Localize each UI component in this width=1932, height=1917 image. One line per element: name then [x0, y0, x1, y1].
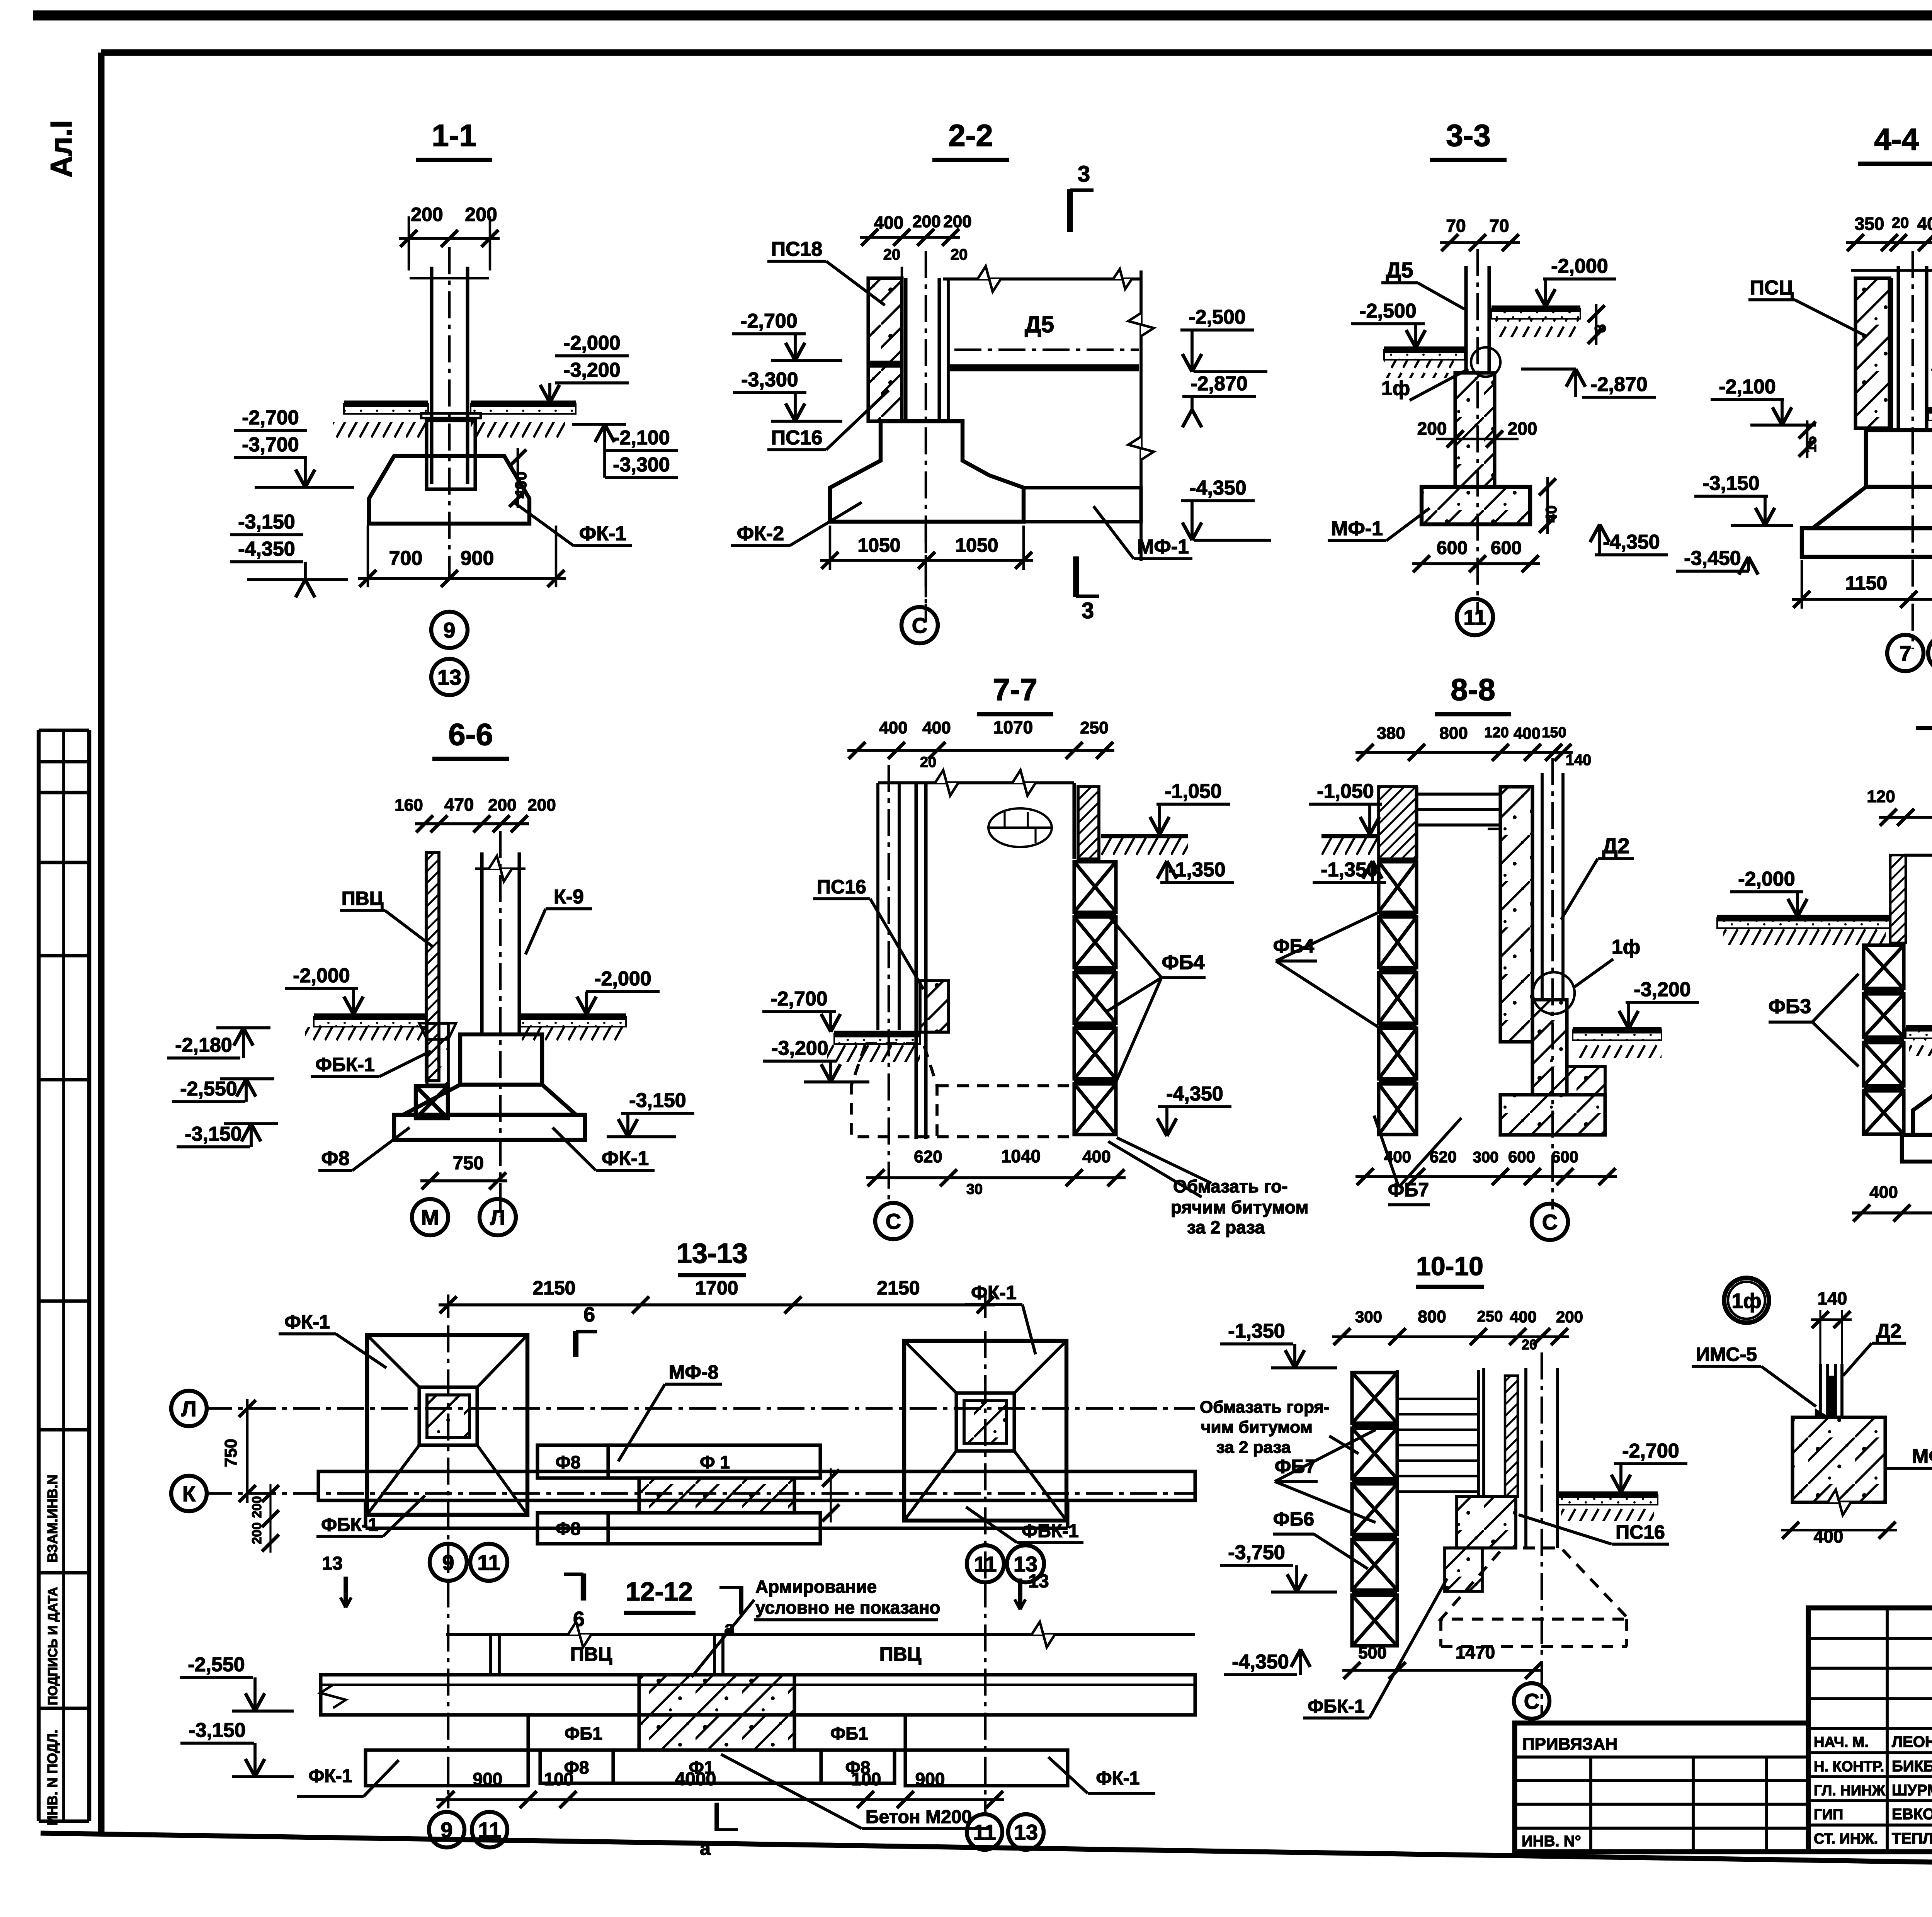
svg-text:Бетон М200: Бетон М200 [866, 1807, 972, 1827]
svg-text:11: 11 [478, 1818, 501, 1842]
svg-text:-2,700: -2,700 [1622, 1440, 1679, 1462]
svg-text:750: 750 [221, 1439, 240, 1467]
svg-text:С: С [1524, 1689, 1539, 1713]
svg-text:3-3: 3-3 [1446, 118, 1491, 153]
svg-text:400: 400 [922, 718, 951, 737]
svg-text:-1,350: -1,350 [1228, 1320, 1285, 1342]
svg-text:ШУРМУКИНА: ШУРМУКИНА [1892, 1782, 1932, 1799]
svg-text:-2,180: -2,180 [175, 1034, 232, 1056]
svg-text:-2,870: -2,870 [1590, 373, 1647, 396]
svg-text:380: 380 [1377, 724, 1405, 743]
svg-text:ФБ6: ФБ6 [1273, 1508, 1314, 1530]
svg-text:ПС16: ПС16 [1616, 1521, 1665, 1543]
svg-text:-3,150: -3,150 [189, 1719, 245, 1742]
svg-text:ФБ1: ФБ1 [830, 1723, 868, 1744]
svg-text:К-9: К-9 [554, 886, 584, 908]
svg-text:ИМС-5: ИМС-5 [1696, 1344, 1757, 1365]
svg-text:620: 620 [1430, 1148, 1457, 1166]
svg-text:ФК-1: ФК-1 [579, 522, 626, 545]
svg-text:-2,870: -2,870 [1190, 373, 1247, 395]
svg-text:800: 800 [1418, 1307, 1446, 1326]
svg-text:200: 200 [912, 212, 940, 231]
svg-text:-2,100: -2,100 [1719, 376, 1776, 398]
svg-text:ТЕПЛОВА: ТЕПЛОВА [1892, 1830, 1932, 1847]
svg-text:300: 300 [1473, 1149, 1499, 1166]
svg-text:200: 200 [1417, 418, 1447, 439]
svg-text:ФБК-1: ФБК-1 [1308, 1696, 1364, 1717]
svg-text:ПВЦ: ПВЦ [879, 1643, 922, 1665]
svg-text:-3,200: -3,200 [563, 359, 620, 381]
svg-text:ПВЦ: ПВЦ [570, 1643, 612, 1665]
svg-text:-3,200: -3,200 [1634, 978, 1690, 1001]
svg-text:ФБ1: ФБ1 [565, 1723, 602, 1744]
svg-text:40: 40 [1543, 505, 1560, 523]
svg-text:-3,150: -3,150 [629, 1089, 686, 1112]
svg-text:-4,350: -4,350 [1166, 1083, 1223, 1105]
svg-text:-2,000: -2,000 [563, 332, 620, 354]
svg-text:620: 620 [914, 1147, 942, 1166]
svg-text:ФБ7: ФБ7 [1275, 1456, 1316, 1477]
svg-text:ГЛ. НИНЖ: ГЛ. НИНЖ [1814, 1783, 1886, 1799]
svg-text:-2,700: -2,700 [770, 988, 827, 1010]
svg-text:-4,350: -4,350 [1232, 1651, 1289, 1673]
svg-text:20: 20 [920, 754, 936, 771]
svg-text:чим битумом: чим битумом [1201, 1418, 1313, 1437]
svg-text:30: 30 [966, 1181, 983, 1197]
svg-text:Д5: Д5 [1386, 258, 1413, 282]
svg-text:-2,000: -2,000 [594, 968, 651, 990]
svg-text:600: 600 [1508, 1148, 1535, 1166]
svg-text:ПСЦ: ПСЦ [1750, 277, 1794, 299]
svg-text:М: М [421, 1205, 439, 1230]
svg-text:600: 600 [1551, 1148, 1578, 1166]
svg-text:200: 200 [488, 796, 516, 815]
svg-text:ПВЦ: ПВЦ [342, 888, 384, 909]
svg-text:13: 13 [322, 1553, 342, 1574]
svg-text:200: 200 [411, 204, 443, 225]
svg-text:400: 400 [1869, 1183, 1898, 1202]
svg-text:-3,150: -3,150 [1702, 472, 1759, 495]
svg-text:-2,700: -2,700 [242, 407, 299, 429]
svg-text:10-10: 10-10 [1416, 1252, 1483, 1281]
svg-text:600: 600 [1491, 538, 1522, 558]
svg-text:Л: Л [181, 1397, 196, 1421]
svg-text:11: 11 [1463, 605, 1486, 629]
svg-text:МФ-1: МФ-1 [1137, 536, 1189, 558]
svg-text:250: 250 [1080, 718, 1108, 737]
svg-text:200: 200 [250, 1522, 264, 1544]
svg-text:ПРИВЯЗАН: ПРИВЯЗАН [1522, 1735, 1617, 1754]
svg-text:ИНВ. N ПОДЛ.: ИНВ. N ПОДЛ. [44, 1730, 60, 1825]
svg-text:13: 13 [1014, 1820, 1038, 1844]
svg-text:15: 15 [1803, 436, 1820, 452]
svg-text:400: 400 [1510, 1308, 1537, 1326]
svg-text:200: 200 [527, 796, 556, 815]
svg-text:С: С [886, 1209, 901, 1233]
svg-text:Ф8: Ф8 [556, 1519, 581, 1539]
svg-text:-2,500: -2,500 [1189, 306, 1245, 328]
svg-text:-3,150: -3,150 [185, 1123, 241, 1145]
svg-text:-4,350: -4,350 [1603, 531, 1660, 553]
svg-text:70: 70 [1489, 216, 1509, 236]
svg-text:Д2: Д2 [1602, 833, 1629, 858]
svg-text:ФБК-1: ФБК-1 [1022, 1521, 1078, 1541]
svg-text:11: 11 [973, 1820, 996, 1844]
svg-text:1ф: 1ф [1731, 1289, 1761, 1313]
svg-text:ПОДПИСЬ И ДАТА: ПОДПИСЬ И ДАТА [46, 1587, 60, 1705]
svg-text:20: 20 [1892, 214, 1909, 231]
svg-text:-1,050: -1,050 [1165, 780, 1221, 803]
svg-text:МФ-1: МФ-1 [1912, 1445, 1932, 1468]
svg-text:-3,300: -3,300 [741, 369, 798, 391]
svg-text:Обмазать го-: Обмазать го- [1173, 1176, 1288, 1196]
svg-text:Л: Л [490, 1205, 505, 1230]
svg-text:140: 140 [1566, 752, 1592, 769]
svg-text:1700: 1700 [695, 1277, 738, 1299]
svg-text:Армирование: Армирование [755, 1577, 877, 1597]
svg-text:7: 7 [1899, 641, 1911, 665]
svg-text:-2,000: -2,000 [293, 964, 350, 987]
svg-text:-2,000: -2,000 [1551, 255, 1608, 277]
svg-text:400: 400 [1384, 1148, 1411, 1166]
svg-text:3: 3 [1082, 598, 1094, 623]
svg-text:400: 400 [879, 718, 907, 737]
svg-text:МФ-8: МФ-8 [669, 1361, 719, 1383]
svg-text:-3,700: -3,700 [242, 434, 299, 456]
svg-text:ФК-1: ФК-1 [971, 1282, 1017, 1303]
svg-text:2150: 2150 [877, 1277, 920, 1299]
svg-text:С: С [1542, 1210, 1558, 1234]
svg-text:ФК-1: ФК-1 [309, 1766, 352, 1786]
svg-text:120: 120 [1867, 787, 1895, 806]
svg-text:1ф: 1ф [1381, 377, 1410, 400]
svg-text:1150: 1150 [1845, 572, 1887, 594]
svg-text:1ф: 1ф [1612, 936, 1640, 958]
svg-text:a: a [700, 1837, 711, 1859]
svg-text:13-13: 13-13 [677, 1238, 748, 1269]
svg-text:-4,350: -4,350 [1189, 477, 1246, 499]
svg-text:750: 750 [453, 1153, 484, 1174]
svg-text:условно не показано: условно не показано [755, 1597, 940, 1618]
svg-text:Д5: Д5 [1025, 311, 1054, 337]
svg-text:Д2: Д2 [1876, 1320, 1901, 1342]
svg-text:13: 13 [437, 665, 461, 689]
svg-text:-3,450: -3,450 [1684, 547, 1741, 570]
svg-text:1050: 1050 [857, 534, 900, 556]
svg-text:ФК-1: ФК-1 [602, 1147, 649, 1170]
svg-text:Обмазать горя-: Обмазать горя- [1200, 1398, 1330, 1417]
svg-text:ГИП: ГИП [1814, 1806, 1843, 1823]
svg-text:-1,050: -1,050 [1317, 780, 1374, 803]
svg-text:-2,550: -2,550 [188, 1653, 245, 1676]
svg-text:700: 700 [389, 547, 423, 570]
svg-text:-3,750: -3,750 [1228, 1541, 1285, 1564]
svg-text:300: 300 [1355, 1308, 1382, 1326]
svg-text:ПС16: ПС16 [817, 876, 866, 898]
svg-text:Н. КОНТР.: Н. КОНТР. [1814, 1759, 1884, 1775]
svg-text:160: 160 [395, 796, 423, 815]
svg-text:100: 100 [852, 1769, 881, 1789]
svg-text:13: 13 [1028, 1571, 1049, 1592]
svg-text:2-2: 2-2 [948, 118, 993, 153]
svg-text:3: 3 [1078, 162, 1090, 187]
svg-text:ФБК-1: ФБК-1 [321, 1515, 378, 1535]
svg-text:200: 200 [250, 1496, 264, 1518]
svg-text:150: 150 [1542, 725, 1566, 741]
svg-text:ЛЕОНОВ: ЛЕОНОВ [1892, 1733, 1932, 1750]
svg-text:4000: 4000 [675, 1769, 716, 1789]
svg-text:-2,700: -2,700 [740, 310, 797, 332]
svg-text:ФК-1: ФК-1 [284, 1311, 330, 1333]
svg-text:200: 200 [1556, 1308, 1583, 1326]
svg-text:ФК-2: ФК-2 [737, 522, 784, 545]
svg-text:-2,000: -2,000 [1738, 868, 1795, 890]
svg-text:6-6: 6-6 [448, 717, 493, 752]
svg-text:НАЧ. М.: НАЧ. М. [1814, 1734, 1869, 1750]
svg-text:12-12: 12-12 [626, 1577, 693, 1606]
svg-text:400: 400 [1514, 724, 1541, 742]
svg-text:1-1: 1-1 [432, 118, 476, 153]
svg-text:20: 20 [883, 246, 901, 263]
svg-text:Ф8: Ф8 [321, 1147, 349, 1170]
svg-text:-3,300: -3,300 [613, 454, 670, 476]
svg-text:рячим битумом: рячим битумом [1171, 1197, 1308, 1217]
svg-text:7-7: 7-7 [993, 672, 1037, 707]
svg-text:1050: 1050 [955, 534, 998, 556]
svg-text:МФ-1: МФ-1 [1331, 517, 1383, 540]
svg-text:400: 400 [512, 471, 530, 498]
svg-text:900: 900 [461, 547, 494, 570]
svg-text:-3,150: -3,150 [238, 511, 295, 533]
svg-text:1040: 1040 [1001, 1146, 1041, 1166]
svg-text:-2,500: -2,500 [1359, 300, 1416, 322]
svg-text:250: 250 [1477, 1308, 1503, 1325]
svg-text:600: 600 [1437, 538, 1468, 558]
svg-text:20: 20 [951, 246, 968, 263]
svg-text:ФБ4: ФБ4 [1162, 951, 1205, 974]
svg-text:-2,100: -2,100 [613, 427, 670, 449]
svg-text:200: 200 [465, 204, 497, 225]
svg-text:ФБК-1: ФБК-1 [315, 1054, 375, 1075]
svg-text:2150: 2150 [532, 1277, 575, 1299]
svg-text:ФБ7: ФБ7 [1388, 1179, 1429, 1201]
svg-text:ПС16: ПС16 [771, 427, 823, 449]
svg-text:900: 900 [473, 1769, 503, 1789]
svg-text:900: 900 [915, 1769, 945, 1789]
svg-text:140: 140 [1818, 1288, 1847, 1308]
svg-text:за 2 раза: за 2 раза [1187, 1217, 1265, 1237]
svg-text:СТ. ИНЖ.: СТ. ИНЖ. [1814, 1831, 1878, 1847]
svg-text:8: 8 [1592, 324, 1609, 333]
svg-text:ФБ3: ФБ3 [1769, 995, 1811, 1018]
svg-text:К: К [182, 1482, 196, 1506]
svg-text:ПС18: ПС18 [771, 238, 823, 260]
svg-text:200: 200 [1508, 418, 1537, 439]
svg-text:11: 11 [477, 1550, 500, 1575]
svg-text:400: 400 [1082, 1147, 1111, 1166]
svg-text:470: 470 [444, 794, 474, 815]
svg-text:-3,200: -3,200 [771, 1037, 828, 1060]
svg-text:ЕВКО: ЕВКО [1892, 1806, 1932, 1823]
svg-text:9: 9 [443, 618, 455, 642]
svg-text:6: 6 [583, 1303, 595, 1326]
svg-text:ВЗАМ.ИНВ.N: ВЗАМ.ИНВ.N [44, 1475, 60, 1563]
svg-text:500: 500 [1358, 1643, 1386, 1662]
svg-text:Ф 1: Ф 1 [700, 1452, 730, 1472]
svg-text:1470: 1470 [1456, 1642, 1495, 1662]
svg-text:ФК-1: ФК-1 [1096, 1768, 1140, 1789]
svg-text:-4,350: -4,350 [238, 538, 295, 560]
svg-text:70: 70 [1446, 216, 1466, 236]
svg-text:800: 800 [1439, 724, 1468, 743]
svg-text:120: 120 [1484, 725, 1509, 741]
svg-text:Ф8: Ф8 [556, 1452, 581, 1472]
svg-text:9: 9 [440, 1818, 452, 1842]
svg-text:400: 400 [1917, 214, 1932, 234]
svg-text:ИНВ. N°: ИНВ. N° [1522, 1833, 1581, 1850]
svg-text:за 2 раза: за 2 раза [1216, 1438, 1291, 1457]
svg-text:4-4: 4-4 [1874, 122, 1919, 156]
svg-text:БИКБАЕВА: БИКБАЕВА [1892, 1758, 1932, 1775]
svg-text:100: 100 [544, 1769, 574, 1789]
svg-text:С: С [912, 613, 927, 638]
svg-text:Ал.I: Ал.I [44, 120, 78, 177]
svg-text:8-8: 8-8 [1451, 672, 1495, 707]
svg-text:-2,550: -2,550 [180, 1078, 237, 1100]
svg-text:350: 350 [1855, 214, 1884, 234]
svg-text:1070: 1070 [993, 717, 1033, 737]
